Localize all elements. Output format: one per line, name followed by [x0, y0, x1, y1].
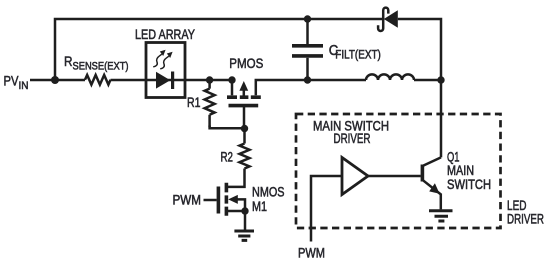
dashed box LED DRIVER [296, 114, 501, 228]
LED DRIVER label [507, 198, 544, 226]
svg-text:DRIVER: DRIVER [507, 211, 544, 226]
PMOS channel bars [227, 95, 261, 99]
LED light arrow 2 [160, 56, 169, 69]
inductor L1 [366, 74, 414, 80]
ground Q1 [429, 211, 453, 221]
junction dot gate node [241, 125, 248, 132]
wire PWM input riser [311, 176, 342, 242]
svg-text:R: R [64, 54, 73, 70]
svg-text:MAIN: MAIN [447, 163, 474, 178]
anode triangle [384, 10, 398, 28]
junction dot cap top [304, 15, 311, 22]
svg-text:M1: M1 [252, 199, 267, 214]
LED light arrow 1 [153, 54, 162, 67]
Q1 emitter diagonal [423, 180, 441, 194]
NMOS gate lead [204, 199, 217, 202]
resistor R2 [228, 129, 250, 187]
svg-text:R1: R1 [187, 94, 201, 110]
wire PVIN to Rsense [30, 79, 85, 82]
svg-text:PMOS: PMOS [229, 55, 263, 71]
svg-text:PWM: PWM [173, 193, 202, 208]
junction dot at PVIN branch [51, 76, 59, 84]
wire diode to right corner [398, 19, 441, 157]
wire buffer output to Q1 base [368, 175, 421, 178]
wire inductor to right rail [414, 79, 441, 82]
junction dot right rail [437, 76, 444, 83]
LED array box [146, 43, 185, 98]
NMOS source lead [228, 210, 245, 213]
NMOS body arrow [237, 199, 246, 211]
Q1 base bar [421, 165, 425, 182]
svg-text:SWITCH: SWITCH [447, 177, 491, 192]
resistor R1 [205, 80, 215, 127]
Q1 labels [447, 150, 491, 193]
wire NMOS source to ground [244, 211, 247, 230]
Q1 emitter stem [440, 194, 443, 210]
svg-text:PWM: PWM [298, 245, 325, 260]
junction dot NMOS source/body [241, 207, 248, 214]
svg-text:R2: R2 [221, 149, 234, 165]
buffer U1 (main switch driver) [342, 158, 368, 195]
svg-text:IN: IN [19, 80, 29, 92]
svg-text:SENSE(EXT): SENSE(EXT) [73, 60, 129, 72]
NMOS channel bars [225, 183, 229, 216]
node PVIN label [4, 73, 29, 92]
resistor RSENSE(EXT) [85, 75, 111, 85]
wire Rsense to PMOS source [111, 79, 233, 82]
svg-text:PV: PV [4, 73, 19, 89]
PMOS body arrow [243, 89, 246, 97]
PMOS gate lead [243, 107, 246, 129]
cathode bar with schottky hooks [378, 8, 388, 31]
MAIN SWITCH DRIVER label [313, 119, 389, 147]
Q1 emitter arrowhead [429, 183, 439, 194]
LED diode triangle [156, 72, 170, 89]
svg-text:NMOS: NMOS [252, 185, 285, 200]
transistor Q1 [422, 157, 441, 209]
Q1 collector diagonal [423, 157, 441, 165]
schottky diode D1 [378, 8, 441, 158]
wire top rail (PVIN riser and top wire to diode cathode) [55, 19, 383, 80]
capacitor CFILT(EXT) [306, 19, 309, 44]
PMOS drain lead [256, 80, 366, 95]
svg-text:FILT(EXT): FILT(EXT) [335, 49, 381, 61]
NMOS transistor M1 [204, 183, 246, 216]
PMOS gate bar [229, 104, 259, 108]
svg-text:DRIVER: DRIVER [334, 131, 371, 146]
PMOS transistor [227, 80, 366, 129]
LED cathode bar [171, 72, 174, 90]
ground M1 [234, 231, 254, 240]
PMOS source lead [231, 80, 234, 95]
junction dot PMOS source [228, 76, 235, 83]
junction dot cap bottom [304, 76, 311, 83]
junction dot R1 top [206, 76, 213, 83]
svg-text:LED ARRAY: LED ARRAY [135, 27, 195, 42]
wire R1 bottom to gate node [210, 126, 245, 129]
NMOS gate bar [217, 187, 221, 214]
